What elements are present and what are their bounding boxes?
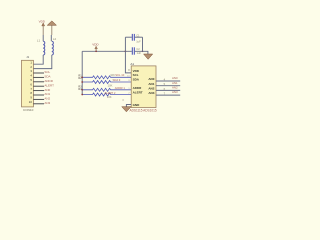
wire VDD large arrow stem to L2: [51, 25, 53, 35]
wire AN0 right: [156, 80, 180, 82]
svg-text:ADDR 1: ADDR 1: [115, 86, 126, 90]
svg-text:A1: A1: [130, 62, 134, 66]
svg-text:SCL: SCL: [44, 70, 50, 74]
resistor R1: [82, 76, 131, 79]
connector J1 pin stubs 3-10: [33, 73, 44, 104]
IC pin numbers 10 9 1 2: [127, 76, 130, 95]
ground symbol top-right: [144, 54, 153, 59]
svg-text:ADDR: ADDR: [44, 79, 53, 83]
power VDD arrow mid: [95, 46, 98, 49]
svg-text:AN3: AN3: [44, 101, 50, 105]
wire VDD arrow stem to L1: [42, 26, 44, 35]
svg-text:1uF: 1uF: [136, 39, 141, 43]
wire IC GND to ground: [126, 105, 131, 107]
svg-text:AN1: AN1: [148, 82, 154, 86]
svg-text:AN0: AN0: [44, 88, 50, 92]
connector J1 pin numbers: [29, 60, 33, 104]
svg-text:J1: J1: [26, 55, 29, 59]
wire AN2 right: [156, 89, 180, 91]
wire L2 bottom to connector pin 2: [33, 55, 51, 69]
power VDD arrow large: [47, 21, 56, 25]
svg-text:VDD: VDD: [92, 43, 99, 47]
wire VDD rail down to IC pin 8: [125, 37, 131, 73]
svg-text:10: 10: [29, 100, 33, 104]
connector J1 body: [22, 60, 34, 107]
svg-text:AN0: AN0: [172, 76, 178, 80]
net labels AN0-AN3 right: [172, 76, 178, 94]
wire VDD rail: [82, 50, 132, 52]
svg-text:GND: GND: [133, 103, 141, 107]
svg-text:SDA 9: SDA 9: [113, 78, 121, 82]
svg-text:ALERT: ALERT: [44, 83, 54, 87]
svg-text:SCL: SCL: [133, 73, 139, 77]
resistor R2: [82, 81, 131, 84]
svg-text:ADS1115 ADS1015: ADS1115 ADS1015: [130, 108, 157, 112]
svg-text:L1: L1: [37, 38, 41, 42]
svg-text:CON10: CON10: [23, 108, 34, 112]
svg-text:AN3: AN3: [172, 90, 178, 94]
svg-text:SDA: SDA: [133, 78, 140, 82]
capacitor C1 loop wires: [125, 36, 131, 38]
capacitor C1 plates: [132, 34, 134, 41]
svg-text:AN2: AN2: [172, 86, 178, 90]
inductor L2: [52, 41, 54, 55]
svg-text:AN1: AN1: [172, 81, 178, 85]
resistor R3: [82, 88, 131, 91]
svg-text:AN2: AN2: [148, 86, 154, 90]
wire capacitor loop right vertical: [142, 37, 144, 51]
svg-text:AN2: AN2: [44, 97, 50, 101]
svg-text:ALERT 2: ALERT 2: [104, 91, 116, 95]
svg-text:10K: 10K: [107, 95, 112, 99]
capacitor C2 plates (in rail): [132, 47, 134, 54]
svg-text:AN0: AN0: [148, 77, 154, 81]
wire rail right of C2 to ground: [135, 51, 148, 54]
wire resistor bus vertical: [81, 51, 83, 94]
svg-text:AN1: AN1: [44, 92, 50, 96]
svg-text:VDD: VDD: [39, 20, 46, 24]
svg-text:AN3: AN3: [148, 91, 154, 95]
svg-text:C1: C1: [136, 33, 140, 37]
wire AN1 right: [156, 85, 180, 87]
IC pin names left: [133, 69, 143, 107]
resistor designators R1 R2: [78, 75, 82, 92]
IC right pin numbers: [164, 79, 166, 96]
wire AN3 right: [156, 94, 180, 96]
svg-text:L2: L2: [53, 37, 57, 41]
IC pin names right: [148, 77, 154, 95]
svg-text:C2: C2: [136, 47, 140, 51]
IC A1 body: [131, 66, 156, 108]
junction dots: [81, 50, 143, 95]
resistor R4: [82, 93, 131, 96]
svg-text:10K: 10K: [108, 83, 113, 87]
svg-text:SDA: SDA: [44, 75, 50, 79]
power VDD arrow small: [42, 23, 45, 26]
svg-text:SCL 10: SCL 10: [115, 73, 125, 77]
wire L1 bottom to connector pin 1: [33, 55, 43, 64]
ground symbol bottom: [122, 107, 131, 112]
connector net labels: [44, 70, 54, 105]
inductor L1: [43, 41, 45, 55]
svg-text:ALERT: ALERT: [133, 91, 143, 95]
